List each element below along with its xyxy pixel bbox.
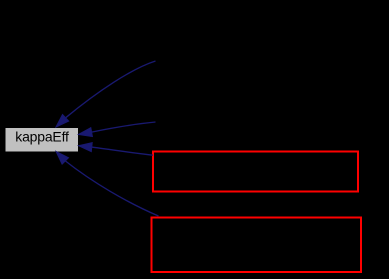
node kappaEff (grey filled box) [6, 128, 79, 152]
edge 3 (from red box 1 to kappaEff right) [79, 143, 153, 156]
edge 1 (from top invisible node to kappaEff top) [56, 61, 156, 127]
edge 2 (from middle invisible node to kappaEff right) [79, 122, 156, 137]
node box 2 (red outlined, empty) [152, 218, 362, 273]
edge 4 (from red box 2 to kappaEff bottom) [56, 151, 159, 216]
node box 1 (red outlined, empty) [153, 152, 358, 192]
svg-text:kappaEff: kappaEff [15, 129, 69, 145]
